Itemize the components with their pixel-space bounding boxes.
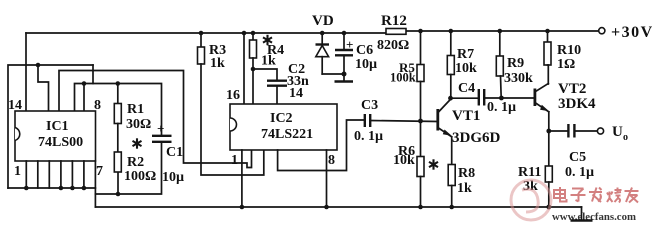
svg-text:VT2: VT2	[558, 81, 586, 97]
svg-text:1: 1	[231, 153, 238, 168]
svg-text:C6: C6	[356, 43, 373, 58]
IC2 notch	[230, 118, 237, 131]
wire: R3 long lead to IC2 pin 3	[201, 64, 264, 175]
star mark R4	[263, 35, 272, 45]
svg-text:R10: R10	[557, 43, 581, 58]
capacitor C3 plates	[364, 114, 366, 127]
wire: R4 riser	[252, 33, 254, 40]
wire: feedback net B left bracket	[8, 65, 93, 188]
node: R4/C2 junction	[251, 67, 256, 72]
capacitor C1 plates	[152, 135, 172, 137]
svg-text:0. 1µ: 0. 1µ	[354, 129, 383, 144]
ground rail	[95, 206, 581, 208]
svg-text:R11: R11	[518, 165, 541, 180]
wire: IC2 pin16 VCC riser	[243, 33, 245, 104]
wire: R10 to VT2 collector	[547, 65, 550, 84]
svg-text:VD: VD	[312, 13, 334, 29]
node: pin1 ground dot	[240, 205, 245, 210]
node: R6 ground dot	[418, 205, 423, 210]
svg-text:VT1: VT1	[452, 108, 480, 124]
wire: R7 riser	[450, 31, 452, 56]
node: R10 rail dot	[545, 29, 550, 34]
svg-text:8: 8	[328, 153, 335, 168]
ground (VD/C6)	[343, 74, 345, 81]
resistor R2	[114, 152, 121, 172]
wire: C4 to VT2 base	[484, 97, 534, 99]
svg-text:www.elecfans.com: www.elecfans.com	[552, 211, 636, 223]
wire: VT2 emitter down	[548, 112, 550, 166]
wire: R1 top lead	[117, 84, 119, 104]
node: R9/base junction	[499, 96, 504, 101]
wire: IC1 bottom pin 3	[48, 161, 50, 188]
svg-text:R9: R9	[507, 56, 524, 71]
resistor R9	[496, 56, 503, 76]
wire: IC2 pin 4 to C3 left	[278, 120, 364, 171]
watermark logo circle	[511, 180, 551, 220]
svg-text:IC1: IC1	[46, 119, 69, 134]
node: VT1 collector node	[448, 96, 453, 101]
svg-text:C3: C3	[361, 98, 378, 113]
node: VD/C6 junction	[342, 72, 347, 77]
wire: IC1 bottom pin 1	[25, 161, 27, 188]
char zi	[571, 189, 586, 202]
svg-text:+: +	[157, 121, 164, 136]
node: R1 top junction	[116, 81, 121, 86]
wire: net B right corner down to RC node	[92, 65, 94, 84]
svg-text:10k: 10k	[393, 153, 415, 168]
svg-text:1k: 1k	[261, 54, 276, 69]
char shao	[607, 188, 622, 203]
wire: RC net D horizontal (pins 9,8 - R1 - C1)	[75, 84, 162, 135]
resistor R6	[417, 157, 424, 177]
wire: R5 riser	[420, 31, 422, 65]
svg-text:U: U	[612, 124, 623, 140]
resistor R4	[250, 40, 257, 58]
svg-text:C5: C5	[569, 150, 586, 165]
terminal Uo	[597, 128, 603, 134]
resistor R11	[545, 166, 552, 182]
node: junction on net B	[36, 63, 41, 68]
svg-text:10µ: 10µ	[355, 57, 377, 72]
node: R7 rail dot	[449, 29, 454, 34]
svg-text:100Ω: 100Ω	[124, 169, 156, 184]
wire: C5 to output terminal	[574, 130, 597, 132]
svg-text:30Ω: 30Ω	[126, 117, 151, 132]
svg-text:330k: 330k	[504, 71, 533, 86]
svg-text:1k: 1k	[210, 56, 225, 71]
resistor R3 riser	[200, 33, 202, 47]
svg-text:1k: 1k	[457, 181, 472, 196]
diode VD	[321, 33, 323, 44]
svg-text:R2: R2	[127, 155, 144, 170]
wire: to C5	[549, 130, 568, 132]
transistor VT1	[436, 109, 439, 131]
wire: R2 bottom lead	[117, 172, 119, 194]
resistor R7	[447, 56, 454, 75]
wire: R4 bottom to IC2 pin15	[252, 58, 254, 104]
svg-text:+: +	[346, 37, 353, 52]
wire: IC1 bottom pin 4	[60, 161, 62, 188]
wire: R9 riser	[499, 31, 501, 56]
resistor R10	[544, 42, 551, 65]
node: R2 bottom dot	[116, 192, 121, 197]
wire: VT1 emitter to R8	[451, 137, 453, 165]
svg-text:14: 14	[289, 86, 303, 101]
capacitor C4 plates	[478, 89, 480, 106]
resistor R8	[448, 165, 455, 186]
wire: base node down to R6	[420, 121, 422, 157]
node: pin4 dot	[59, 186, 64, 191]
svg-text:0. 1µ: 0. 1µ	[487, 100, 516, 115]
svg-text:10µ: 10µ	[162, 170, 184, 185]
svg-text:8: 8	[94, 98, 101, 113]
star mark R2	[133, 138, 142, 148]
wire: R1-R2 link	[117, 124, 119, 153]
svg-text:820Ω: 820Ω	[377, 38, 409, 53]
transistor VT2	[534, 89, 537, 107]
svg-text:C1: C1	[166, 145, 183, 160]
svg-text:C4: C4	[458, 81, 475, 96]
wire: VD to C6 bottom joint	[322, 73, 344, 75]
wire: net B jog down to IC1 pin 12	[38, 65, 49, 111]
wire: IC2 pin 8 to ground	[326, 150, 328, 207]
svg-text:7: 7	[96, 164, 103, 179]
svg-text:10k: 10k	[455, 61, 477, 76]
wire: R10 riser	[547, 31, 549, 42]
svg-text:R8: R8	[458, 166, 475, 181]
IC1 notch	[15, 128, 20, 141]
wire: IC1 bottom bus	[8, 187, 95, 189]
wire: pin 8 stub	[83, 84, 85, 112]
IC1 74LS00 body	[15, 111, 96, 161]
node: R11 ground dot	[546, 205, 551, 210]
node: emitter/C5 junction	[546, 129, 551, 134]
svg-text:14: 14	[8, 98, 22, 113]
wire: +30V rail right of R12	[406, 30, 599, 32]
wire: C2 bottom to IC2 pin14	[276, 86, 278, 104]
wire: R11 to ground rail	[548, 182, 550, 207]
wire: R6 to ground	[420, 177, 422, 208]
node: pin6 dot	[82, 186, 87, 191]
svg-text:R1: R1	[127, 102, 144, 117]
resistor R1	[114, 104, 121, 124]
svg-text:3DG6D: 3DG6D	[452, 130, 501, 146]
node: pin5 dot	[70, 186, 75, 191]
svg-text:1: 1	[14, 164, 21, 179]
char fa	[589, 188, 602, 203]
svg-text:74LS221: 74LS221	[261, 127, 313, 142]
node: VT1 base node	[418, 119, 423, 124]
watermark text chinese (drawn as strokes)	[554, 187, 639, 203]
wire: IC1 bottom pin 5	[71, 161, 73, 188]
wire: R9 to base junction	[500, 76, 503, 98]
wire: IC1 bottom pin 2	[37, 161, 39, 188]
resistor R5	[417, 65, 424, 82]
svg-text:R12: R12	[381, 13, 407, 29]
svg-text:74LS00: 74LS00	[38, 135, 83, 150]
node: R5 rail dot	[418, 29, 423, 34]
svg-text:o: o	[623, 132, 628, 143]
svg-text:+30V: +30V	[611, 24, 654, 41]
node: R3 rail dot	[199, 31, 204, 36]
terminal +30V	[599, 28, 605, 34]
node: R9 rail dot	[498, 29, 503, 34]
IC2 74LS221 body	[230, 104, 337, 150]
char you	[625, 188, 639, 203]
svg-text:R7: R7	[457, 47, 474, 62]
svg-text:16: 16	[226, 88, 240, 103]
node: pin8 ground dot	[324, 205, 329, 210]
resistor R12	[386, 29, 406, 35]
svg-text:1Ω: 1Ω	[557, 57, 575, 72]
capacitor C6	[343, 33, 345, 50]
wire: IC2 pin 1 to ground	[241, 150, 243, 207]
wire: branch to C2	[253, 69, 277, 80]
wire: IC1 bottom pin 6	[83, 161, 85, 188]
wire: R5 to base node	[420, 82, 422, 122]
wire: R2/C1 bottom net	[95, 143, 161, 195]
wire: 5V rail top-left	[26, 32, 386, 34]
node: R8 ground dot	[449, 205, 454, 210]
wire: C3 to base node	[370, 121, 437, 122]
wire: IC1 pin 7 down to ground rail	[94, 161, 96, 207]
wire: rail corner down to IC1 pin 14	[25, 33, 27, 111]
node: pin1 dot	[24, 186, 29, 191]
ground symbol bottom right	[581, 207, 583, 220]
node: pin8 junction	[82, 81, 87, 86]
wire: collector node to C4	[451, 97, 479, 99]
node: pin16 rail dot	[242, 31, 247, 36]
star mark R6/R8	[429, 159, 438, 169]
capacitor C2 plates	[267, 79, 287, 81]
resistor R3	[198, 47, 205, 64]
svg-text:3DK4: 3DK4	[558, 96, 596, 112]
char dian	[554, 187, 567, 202]
wire: R8 to ground	[451, 186, 453, 208]
wire: R7 to collector node	[450, 75, 452, 99]
svg-text:IC2: IC2	[270, 111, 293, 126]
node: R4 rail dot	[251, 31, 256, 36]
capacitor C5 plates	[567, 124, 569, 138]
svg-text:100k: 100k	[390, 71, 416, 85]
svg-text:0. 1µ: 0. 1µ	[565, 165, 594, 180]
wire: net C from IC1 pin 11 to IC2 pin 2	[59, 71, 252, 168]
